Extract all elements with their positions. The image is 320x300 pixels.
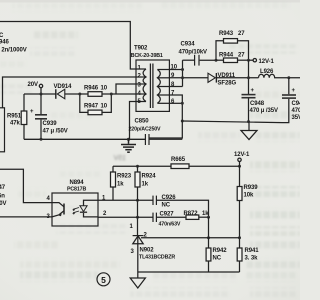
svg-text:C934: C934 bbox=[181, 42, 196, 48]
resistor R946 bbox=[88, 92, 102, 97]
svg-text:1k: 1k bbox=[117, 182, 124, 188]
svg-text:R924: R924 bbox=[142, 174, 157, 180]
svg-text:R665: R665 bbox=[171, 157, 186, 163]
wire snubber vertical bbox=[182, 60, 184, 86]
resistor R941 bbox=[237, 248, 242, 261]
svg-text:50V: 50V bbox=[0, 201, 6, 207]
wire pin5 to ground rail bbox=[130, 102, 137, 140]
svg-text:27: 27 bbox=[238, 31, 245, 37]
svg-text:27: 27 bbox=[238, 53, 245, 59]
svg-text:2. 2n/1000V: 2. 2n/1000V bbox=[0, 48, 27, 54]
svg-text:12V-1: 12V-1 bbox=[259, 59, 275, 65]
resistor R951 bbox=[23, 94, 25, 111]
svg-text:+: + bbox=[251, 88, 255, 94]
svg-text:NC: NC bbox=[162, 203, 171, 209]
svg-text:T902: T902 bbox=[134, 46, 148, 52]
optocoupler N894 box bbox=[52, 193, 98, 226]
svg-text:470: 470 bbox=[292, 108, 301, 114]
svg-text:R946: R946 bbox=[84, 86, 99, 92]
capacitor C949 (right, cut) bbox=[288, 78, 290, 94]
svg-text:3. 3k: 3. 3k bbox=[245, 256, 259, 262]
ground secondary (open triangle) bbox=[248, 122, 250, 131]
wire opto pin1 to C926 bbox=[98, 199, 153, 201]
svg-text:5: 5 bbox=[101, 275, 106, 285]
wire 20V terminal drop bbox=[40, 88, 42, 94]
wire TL431 ref line bbox=[141, 237, 240, 239]
wire opto pin2 to C927 bbox=[98, 216, 153, 218]
svg-text:20V: 20V bbox=[28, 82, 38, 88]
svg-text:C927: C927 bbox=[160, 212, 175, 218]
svg-text:SF28G: SF28G bbox=[218, 81, 237, 87]
svg-text:VD911: VD911 bbox=[218, 73, 236, 79]
svg-text:+: + bbox=[30, 109, 34, 115]
wire bottom rail bbox=[138, 271, 240, 273]
transformer core bbox=[149, 64, 151, 109]
svg-text:C948: C948 bbox=[250, 101, 265, 107]
capacitor C927 bbox=[153, 213, 156, 222]
svg-text:R939: R939 bbox=[244, 185, 259, 191]
diode VD914 bbox=[56, 89, 65, 99]
wire comp node down to ref line bbox=[208, 217, 210, 238]
svg-text:470n/63V: 470n/63V bbox=[159, 222, 181, 228]
ground TL431 (open triangle) bbox=[137, 272, 139, 278]
svg-text:C939: C939 bbox=[43, 121, 58, 127]
terminal 20V bbox=[39, 84, 42, 87]
svg-text:C926: C926 bbox=[162, 195, 177, 201]
svg-text:C850: C850 bbox=[135, 119, 150, 125]
svg-text:C94: C94 bbox=[292, 101, 301, 107]
svg-text:L926: L926 bbox=[260, 69, 274, 75]
pins T902 left bbox=[138, 66, 142, 106]
wire pin9 diode line bbox=[169, 77, 207, 79]
svg-text:5n: 5n bbox=[0, 194, 5, 200]
wire T902 pin3 jog bbox=[116, 84, 136, 94]
svg-text:R941: R941 bbox=[245, 248, 260, 254]
svg-text:R923: R923 bbox=[117, 174, 132, 180]
capacitor C926 bbox=[153, 196, 156, 205]
svg-text:47 μ /50V: 47 μ /50V bbox=[43, 129, 68, 135]
resistor R939 bbox=[237, 187, 242, 201]
pins opto bbox=[47, 196, 108, 221]
shunt regulator N902 TL431 bbox=[137, 235, 139, 243]
capacitor C939 bbox=[40, 94, 42, 114]
svg-text:NC: NC bbox=[213, 256, 222, 262]
svg-text:1k: 1k bbox=[142, 182, 149, 188]
wire pin8 jog up bbox=[169, 86, 182, 88]
opto phototransistor bbox=[63, 204, 65, 215]
capacitor C948 bbox=[242, 94, 256, 99]
opto arrows bbox=[73, 208, 79, 210]
svg-text:470 μ /35V: 470 μ /35V bbox=[250, 108, 278, 114]
diode VD911 bbox=[208, 73, 216, 83]
svg-text:N894: N894 bbox=[70, 180, 85, 186]
svg-text:PC817B: PC817B bbox=[67, 187, 86, 193]
resistor R947 bbox=[88, 110, 102, 115]
ground primary (hatched) bbox=[121, 139, 136, 152]
svg-text:R947: R947 bbox=[84, 104, 99, 110]
wire opto pin3 to left bbox=[0, 216, 52, 218]
svg-text:10k: 10k bbox=[244, 193, 254, 199]
wire 12V-1 down to diode node bbox=[248, 60, 250, 94]
resistor R665 bbox=[171, 164, 189, 169]
resistor R943 bbox=[224, 39, 238, 44]
svg-text:R944: R944 bbox=[219, 53, 234, 59]
svg-text:N902: N902 bbox=[140, 248, 155, 254]
svg-text:VD914: VD914 bbox=[54, 84, 73, 90]
svg-text:R872: R872 bbox=[184, 211, 199, 217]
svg-text:10: 10 bbox=[101, 104, 108, 110]
pins TL431 bbox=[130, 224, 148, 255]
wire R947 parallel jog bbox=[80, 94, 88, 112]
wire primary pin2 to left block bbox=[3, 77, 137, 108]
svg-text:R951: R951 bbox=[7, 114, 22, 120]
terminal 12V-1 bottom bbox=[238, 158, 241, 161]
svg-text:TL431BCDBZR: TL431BCDBZR bbox=[139, 255, 175, 261]
capacitor C850 bbox=[145, 134, 149, 145]
svg-text:946: 946 bbox=[0, 40, 9, 46]
wire secondary ground rail bbox=[182, 121, 282, 123]
left block (cut off) bbox=[0, 108, 5, 152]
transformer secondary winding bbox=[157, 70, 160, 104]
svg-text:220p/AC250V: 220p/AC250V bbox=[129, 127, 162, 133]
wire 20V rail bbox=[24, 93, 56, 95]
wire primary ground rail bbox=[24, 138, 145, 140]
svg-text:R942: R942 bbox=[213, 248, 228, 254]
callout 5 bbox=[97, 273, 110, 286]
resistor R872 bbox=[186, 215, 199, 219]
svg-text:10: 10 bbox=[101, 86, 108, 92]
wire feedback to primary (left) bbox=[0, 169, 52, 202]
wire R924 down to TL431 bbox=[137, 187, 139, 235]
svg-text:BCK-20-39B1: BCK-20-39B1 bbox=[131, 53, 163, 59]
svg-text:15V: 15V bbox=[113, 155, 126, 162]
wire snubber R junction bbox=[216, 41, 224, 60]
inductor L926 bbox=[259, 74, 275, 78]
node 20V junction bbox=[40, 93, 43, 96]
svg-text:R947: R947 bbox=[0, 185, 6, 191]
svg-text:12V-1: 12V-1 bbox=[234, 152, 250, 158]
capacitor C934 bbox=[183, 59, 195, 61]
wire 12V node to R923/R924 bbox=[113, 165, 171, 167]
wire R943/R944 right junction to 12V-1 bbox=[238, 41, 249, 60]
svg-text:+: + bbox=[292, 88, 296, 94]
transformer primary winding bbox=[143, 69, 146, 102]
terminal 12V-1 top bbox=[253, 59, 256, 62]
svg-text:470p/10kV: 470p/10kV bbox=[179, 50, 208, 56]
wire pin10 stub bbox=[169, 69, 182, 71]
resistor R942 bbox=[206, 248, 211, 261]
svg-text:10: 10 bbox=[171, 65, 178, 71]
wire pin7/pin6 to ground bbox=[149, 95, 182, 138]
resistor R944 bbox=[224, 58, 238, 63]
svg-text:R943: R943 bbox=[219, 31, 234, 37]
resistor R923 bbox=[112, 166, 114, 172]
resistor R924 bbox=[137, 166, 139, 172]
transformer T902 box bbox=[136, 60, 169, 111]
svg-text:1k: 1k bbox=[202, 211, 209, 217]
svg-text:47k: 47k bbox=[10, 121, 20, 127]
svg-text:35V: 35V bbox=[292, 115, 301, 121]
opto LED bbox=[84, 200, 99, 206]
pins T902 right bbox=[171, 65, 178, 105]
wire top feed to T902 pin1 bbox=[0, 22, 136, 70]
